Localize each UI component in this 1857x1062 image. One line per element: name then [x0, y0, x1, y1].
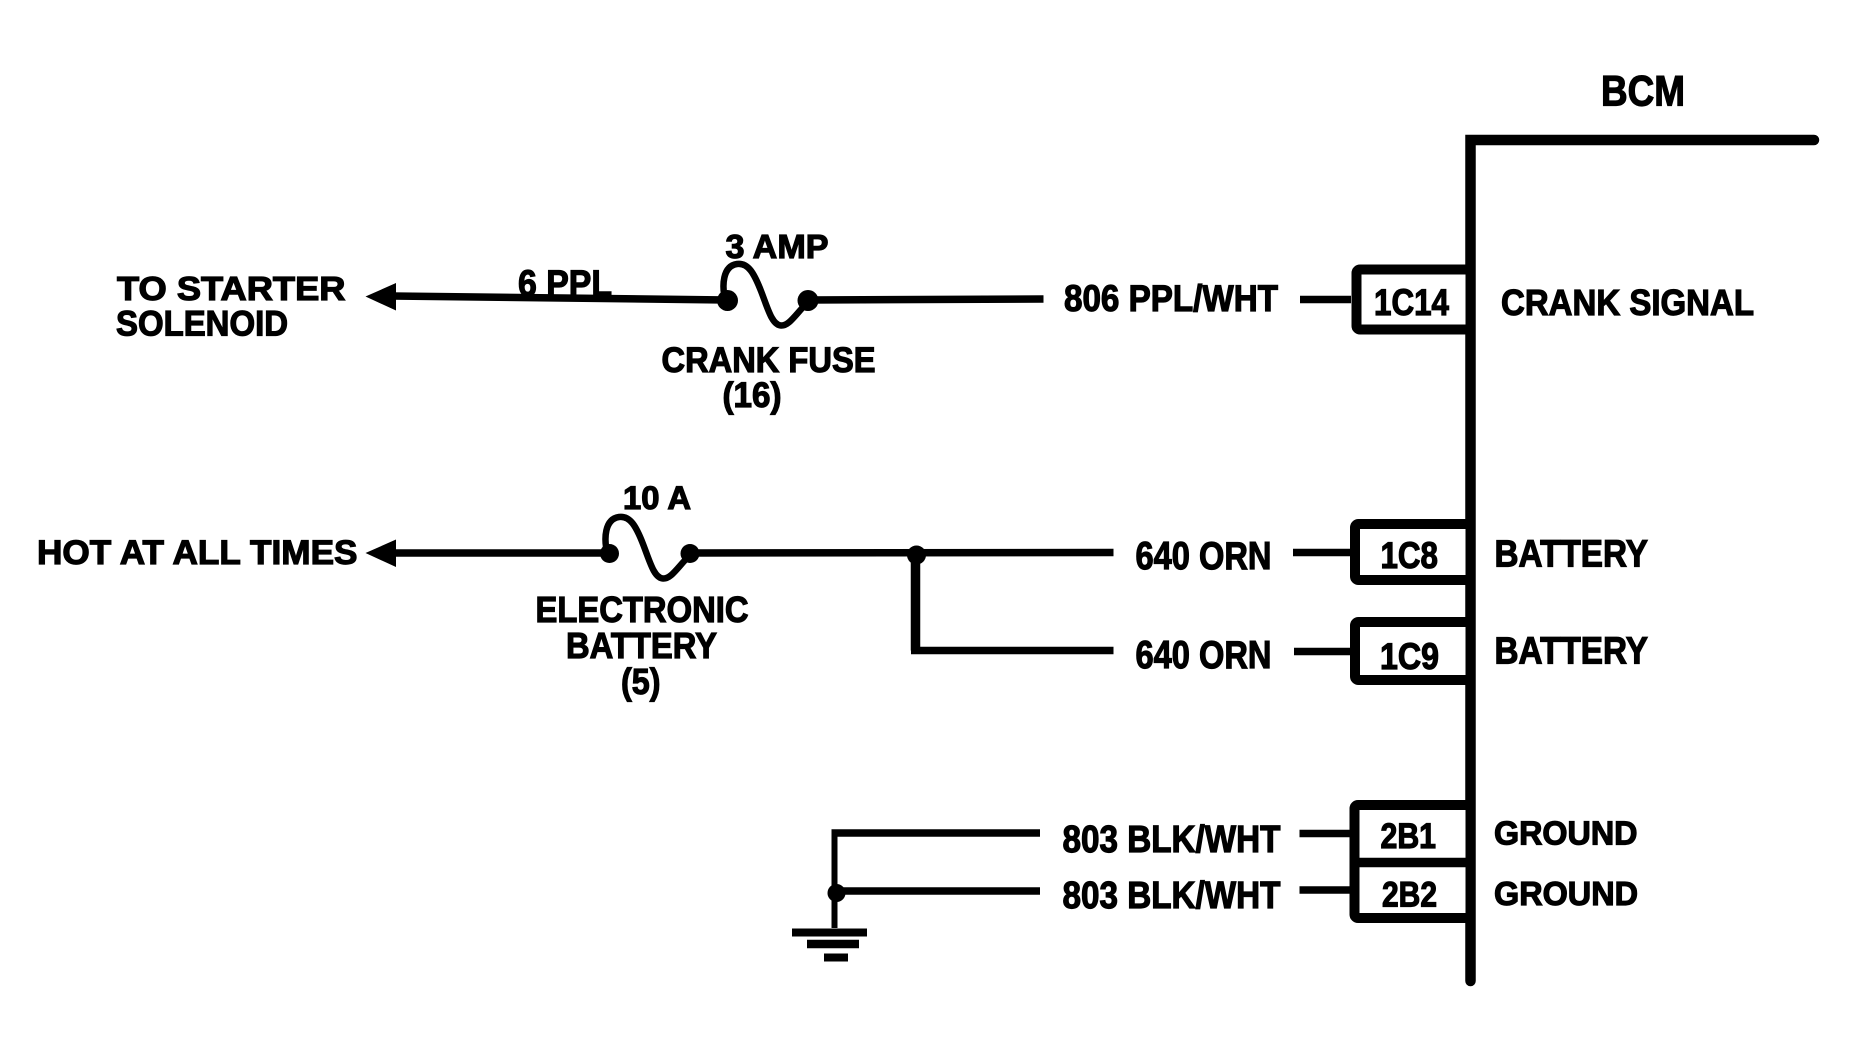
- arrow hot at all times: [366, 540, 397, 568]
- wire stub to pin 2B1: [1300, 830, 1351, 838]
- svg-text:10 A: 10 A: [623, 480, 691, 516]
- svg-text:1C14: 1C14: [1374, 282, 1449, 323]
- svg-text:803 BLK/WHT: 803 BLK/WHT: [1063, 875, 1281, 917]
- ground symbol: [792, 933, 867, 958]
- svg-text:2B2: 2B2: [1382, 876, 1437, 915]
- svg-text:(5): (5): [621, 661, 661, 702]
- wire: ground branch lower (to 2B2): [836, 887, 1040, 895]
- pin 1C9 box: [1355, 622, 1471, 680]
- BCM module outline (bus): [1471, 140, 1815, 981]
- svg-text:ELECTRONIC: ELECTRONIC: [536, 589, 749, 630]
- svg-text:SOLENOID: SOLENOID: [116, 305, 288, 344]
- svg-text:BATTERY: BATTERY: [1495, 631, 1649, 673]
- svg-text:1C9: 1C9: [1380, 636, 1439, 677]
- pin 1C8 box: [1355, 524, 1471, 580]
- svg-text:BCM: BCM: [1601, 68, 1685, 116]
- svg-text:640 ORN: 640 ORN: [1136, 535, 1272, 578]
- wire: arrow to electronic battery fuse: [392, 549, 610, 557]
- wire: fuse to junction to 640 ORN row 1: [690, 549, 1114, 557]
- wire stub to pin 1C9: [1294, 648, 1350, 656]
- svg-text:803 BLK/WHT: 803 BLK/WHT: [1063, 819, 1281, 861]
- junction dot at ground branch: [828, 884, 846, 902]
- wire stub to pin 1C8: [1293, 549, 1350, 557]
- svg-text:CRANK SIGNAL: CRANK SIGNAL: [1501, 282, 1754, 323]
- wire: ground branch top (to 2B1): [832, 829, 1041, 837]
- svg-text:GROUND: GROUND: [1494, 876, 1638, 913]
- fuse F2 (electronic battery fuse): [600, 517, 700, 579]
- svg-text:3 AMP: 3 AMP: [726, 228, 829, 265]
- svg-text:TO STARTER: TO STARTER: [117, 270, 346, 307]
- svg-text:BATTERY: BATTERY: [1495, 534, 1649, 576]
- junction node dot: [907, 546, 926, 565]
- svg-text:HOT AT ALL TIMES: HOT AT ALL TIMES: [37, 534, 358, 572]
- svg-text:6 PPL: 6 PPL: [518, 263, 612, 304]
- svg-text:(16): (16): [723, 376, 782, 415]
- svg-text:640 ORN: 640 ORN: [1136, 634, 1272, 677]
- svg-text:2B1: 2B1: [1381, 817, 1437, 856]
- wire: arrow to crank fuse: [392, 296, 727, 300]
- pin 1C14 box: [1357, 270, 1471, 330]
- wire stub to pin 1C14: [1300, 296, 1351, 304]
- wire stub to pin 2B2: [1300, 886, 1351, 894]
- svg-text:GROUND: GROUND: [1494, 816, 1638, 853]
- svg-text:BATTERY: BATTERY: [566, 625, 717, 666]
- svg-text:806 PPL/WHT: 806 PPL/WHT: [1064, 278, 1278, 319]
- arrow to starter solenoid: [366, 283, 397, 311]
- svg-text:1C8: 1C8: [1381, 535, 1439, 576]
- fuse F1 (crank fuse): [717, 264, 819, 326]
- pin 2B1/2B2 combined box: [1354, 805, 1471, 918]
- wire: ground branch vertical: [832, 830, 838, 929]
- svg-text:CRANK FUSE: CRANK FUSE: [662, 341, 876, 380]
- wire: crank fuse to 806 PPL/WHT: [808, 299, 1044, 300]
- wire: junction down and right to 640 ORN row 2: [911, 553, 921, 651]
